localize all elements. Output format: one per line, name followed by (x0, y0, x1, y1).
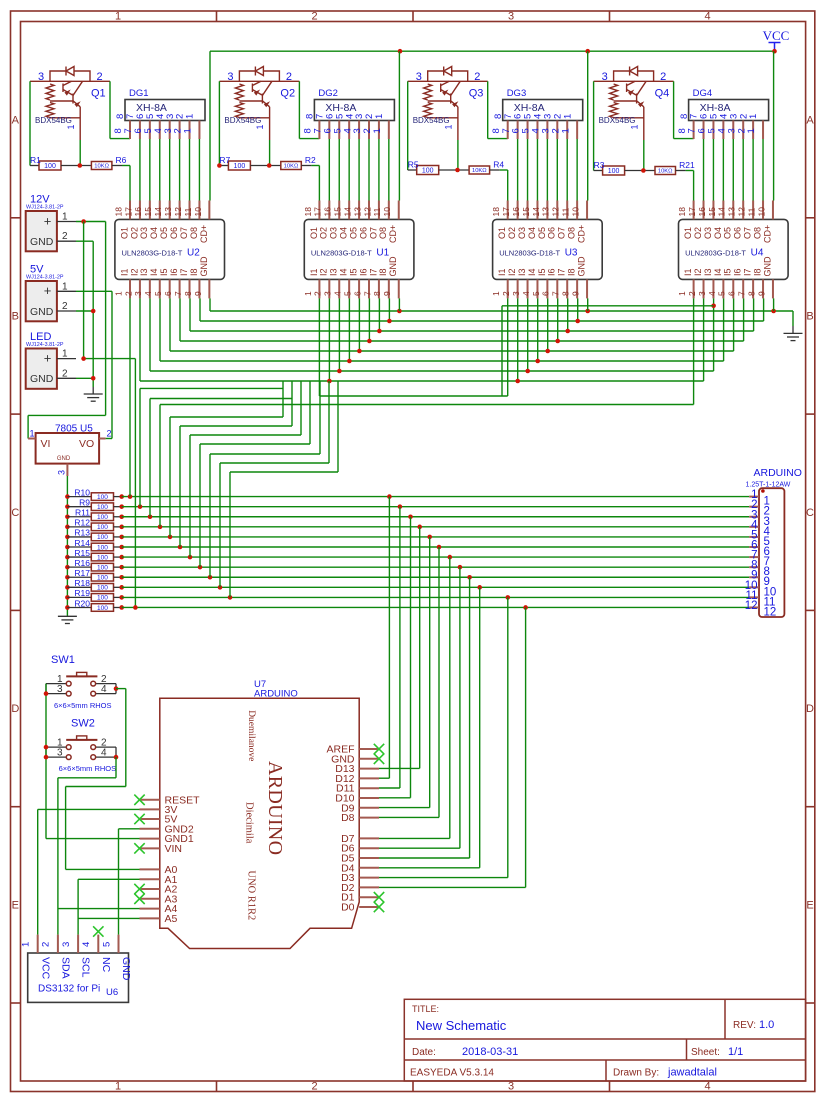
svg-text:3: 3 (511, 291, 521, 296)
U7 pin GND1 (140, 838, 160, 840)
wire net bus 361 (160, 360, 724, 362)
junction rail / R11 (65, 514, 70, 519)
wire net GND rail mid (210, 310, 793, 312)
svg-text:D: D (806, 703, 814, 715)
no-connect flag A2 (134, 884, 144, 894)
svg-text:100: 100 (97, 595, 108, 602)
svg-text:I7: I7 (368, 268, 378, 276)
junction row 1 / feed column (128, 494, 133, 499)
no-connect flag AREF (374, 744, 384, 754)
junction VCC rail / U1 CD+ (398, 49, 403, 54)
wire LED+ down to R20 row (134, 359, 136, 608)
junction U3 pin drop bus 341 (555, 339, 560, 344)
svg-text:11: 11 (372, 207, 382, 216)
svg-text:D0: D0 (341, 902, 355, 914)
svg-text:100: 100 (97, 524, 108, 531)
junction U1 pin drop bus 321 (387, 319, 392, 324)
U5 pin 1 VI (28, 438, 35, 440)
no-connect flag GND (374, 754, 384, 764)
U7 body (160, 698, 359, 948)
svg-text:O3: O3 (703, 227, 713, 239)
svg-text:O4: O4 (527, 227, 537, 239)
wire Q1 pin2 to DG pin8 (110, 138, 130, 140)
wire R21 down to ULN pin18 (693, 171, 695, 201)
svg-text:I6: I6 (547, 268, 557, 276)
svg-text:A: A (806, 115, 814, 127)
svg-text:I8: I8 (567, 268, 577, 276)
svg-text:SW1: SW1 (51, 654, 75, 666)
junction SW2 right (114, 755, 119, 760)
ARDUINO pin 7 (749, 556, 759, 558)
ground symbol right (784, 333, 803, 340)
svg-text:3: 3 (57, 470, 67, 475)
junction row 4 / feed column (158, 525, 163, 530)
U6 pin 5 GND (118, 935, 120, 953)
svg-text:R19: R19 (74, 588, 90, 598)
U4 pin 9 GND (772, 279, 774, 298)
svg-text:17: 17 (313, 207, 323, 217)
U7 pin AREF (359, 748, 379, 750)
svg-text:4: 4 (521, 291, 531, 296)
wire Q4 pin1 to junction (643, 140, 645, 171)
svg-text:jawadtalal: jawadtalal (667, 1067, 717, 1079)
svg-text:+: + (44, 350, 52, 365)
U1 pin 5 I5 (358, 279, 360, 298)
U3 pin 2 I2 (517, 279, 519, 298)
svg-text:18: 18 (303, 207, 313, 217)
svg-text:WJ124-3.81-2P: WJ124-3.81-2P (26, 275, 64, 281)
svg-text:I6: I6 (733, 268, 743, 276)
svg-text:R15: R15 (74, 548, 90, 558)
junction Q2 pin1 / resistor row (267, 163, 272, 168)
wire net 12V+ (76, 221, 106, 223)
U4 pin 15 O4 (722, 201, 724, 220)
svg-text:1: 1 (444, 124, 454, 129)
U2 pin 7 I7 (189, 279, 191, 298)
svg-text:7: 7 (362, 291, 372, 296)
U1 pin 7 I7 (378, 279, 380, 298)
ARDUINO pin 12 (749, 606, 759, 608)
transistor Q1 BDX54BG (30, 67, 110, 141)
svg-text:1: 1 (629, 124, 639, 129)
junction LED+ / 12V+ column (81, 356, 86, 361)
svg-text:R11: R11 (75, 508, 90, 518)
svg-text:1: 1 (62, 212, 68, 223)
svg-text:13: 13 (352, 207, 362, 217)
svg-text:R3: R3 (594, 160, 605, 170)
wire to GND1 (46, 838, 140, 840)
DG2 pin 5 (348, 121, 350, 140)
junction row 3 drop (408, 514, 413, 519)
ARDUINO pin 4 (749, 526, 759, 528)
U3 pin 16 O3 (527, 201, 529, 220)
wire DG1.2 to ULN (189, 139, 191, 201)
wire Q4 pin3 down to base resistor (593, 81, 595, 170)
svg-text:O1: O1 (683, 227, 693, 239)
ARDUINO pin 10 (749, 586, 759, 588)
junction U4 GND (771, 309, 776, 314)
wire LED pin2 (57, 377, 76, 379)
svg-text:1.0: 1.0 (759, 1019, 774, 1031)
svg-text:I5: I5 (348, 268, 358, 276)
junction rail / R18 (65, 585, 70, 590)
svg-text:R2: R2 (305, 155, 316, 165)
U7 pin D1 (359, 896, 379, 898)
wire net GND connectors (76, 240, 93, 242)
U4 pin 14 O5 (732, 201, 734, 220)
svg-text:8: 8 (372, 291, 382, 296)
svg-text:ARDUINO: ARDUINO (264, 761, 286, 855)
U3 pin 4 I4 (536, 279, 538, 298)
wire DG1.7 to ULN (139, 139, 141, 201)
svg-text:Date:: Date: (412, 1047, 436, 1058)
wire net bus 381 (140, 380, 704, 382)
junction rail / R10 (65, 494, 70, 499)
svg-text:5: 5 (101, 942, 112, 947)
U2 pin 4 I4 (159, 279, 161, 298)
junction U3 pin drop bus 371 (525, 369, 530, 374)
wire to A4 (58, 908, 140, 910)
U3 pin 17 O2 (517, 201, 519, 220)
svg-text:EASYEDA V5.3.14: EASYEDA V5.3.14 (410, 1068, 494, 1079)
U7 pin D2 (359, 886, 379, 888)
svg-text:BDX54BG: BDX54BG (599, 116, 636, 125)
wire to 3V (38, 808, 140, 810)
U2 pin 6 I6 (179, 279, 181, 298)
U4 pin 8 I8 (762, 279, 764, 298)
svg-text:14: 14 (153, 207, 163, 217)
svg-text:I8: I8 (378, 268, 388, 276)
wire net bus 331 (190, 330, 754, 332)
svg-text:3: 3 (508, 11, 514, 23)
wire to A5 (78, 917, 139, 919)
svg-text:2: 2 (62, 231, 68, 242)
junction SW2 pin3 (44, 755, 49, 760)
transistor Q4 BDX54BG (594, 67, 674, 141)
wire DG2.5 to ULN (348, 139, 350, 201)
svg-text:17: 17 (687, 207, 697, 217)
wire DG4.4 to ULN (732, 139, 734, 201)
svg-text:O5: O5 (723, 227, 733, 239)
wire net row 3 (122, 516, 750, 518)
U1 pin 2 I2 (328, 279, 330, 298)
svg-text:GND: GND (57, 456, 71, 462)
svg-text:ULN2803G-D18-T: ULN2803G-D18-T (311, 249, 372, 258)
U4 pin 11 O8 (762, 201, 764, 220)
U3 pin 15 O4 (536, 201, 538, 220)
junction U1 pin drop bus 351 (357, 349, 362, 354)
junction U1 GND (397, 309, 402, 314)
svg-text:GND: GND (762, 256, 772, 277)
wire net SCL / A1 / A5 (77, 879, 79, 934)
svg-text:1: 1 (677, 291, 687, 296)
U3 pin 6 I6 (556, 279, 558, 298)
ARDUINO pin 11 (749, 596, 759, 598)
U1 pin 17 O2 (328, 201, 330, 220)
transistor Q2 BDX54BG (219, 67, 299, 141)
junction U4 I3 (711, 304, 716, 309)
svg-text:100: 100 (608, 168, 620, 175)
wire LED pin1 (57, 358, 76, 360)
DG4 pin 1 (762, 121, 764, 140)
svg-text:8: 8 (746, 291, 756, 296)
svg-text:R18: R18 (74, 578, 90, 588)
svg-text:I2: I2 (693, 268, 703, 276)
svg-text:100: 100 (44, 163, 56, 170)
svg-text:6: 6 (541, 291, 551, 296)
wire 12V+ down (105, 222, 107, 416)
DG1 pin 1 (198, 121, 200, 140)
DG4 pin 2 (752, 121, 754, 140)
svg-text:1: 1 (748, 114, 759, 119)
svg-text:VO: VO (79, 438, 94, 450)
svg-text:R21: R21 (679, 160, 695, 170)
svg-text:DG3: DG3 (507, 88, 527, 99)
svg-text:O3: O3 (517, 227, 527, 239)
svg-text:I2: I2 (507, 268, 517, 276)
svg-text:13: 13 (163, 207, 173, 217)
svg-text:DG4: DG4 (693, 88, 713, 99)
junction row 10 / feed column (218, 585, 223, 590)
U7 pin A2 (140, 888, 160, 890)
wire Q3 pin2 down (487, 81, 489, 138)
U7 pin A1 (140, 878, 160, 880)
svg-text:R20: R20 (74, 598, 90, 608)
svg-text:R1: R1 (30, 155, 41, 165)
svg-text:12: 12 (173, 207, 183, 217)
svg-text:XH-8A: XH-8A (325, 102, 356, 114)
wire DG2.6 to ULN (338, 139, 340, 201)
DG4 pin 3 (742, 121, 744, 140)
svg-text:12: 12 (362, 207, 372, 217)
junction Q4 pin1 / resistor row (641, 168, 646, 173)
svg-text:O4: O4 (339, 227, 349, 239)
junction rail / R19 (65, 595, 70, 600)
wire net row 10 (122, 586, 750, 588)
junction R10 output (119, 494, 124, 499)
U7 pin RESET (140, 799, 160, 801)
svg-text:I8: I8 (189, 268, 199, 276)
junction GND / 5V pin2 (91, 309, 96, 314)
wire DG3.7 to ULN (517, 139, 519, 201)
svg-text:Q2: Q2 (280, 88, 295, 100)
wire feed row 4 (159, 405, 161, 527)
svg-text:R14: R14 (74, 538, 90, 548)
svg-text:ULN2803G-D18-T: ULN2803G-D18-T (122, 249, 183, 258)
wire U4 GND drop (773, 298, 775, 311)
svg-text:17: 17 (123, 207, 133, 217)
wire DG4.2 to ULN (752, 139, 754, 201)
ground stem (92, 387, 94, 394)
wire R5 to R4 (439, 169, 469, 171)
junction R20 output (119, 605, 124, 610)
svg-text:B: B (806, 311, 813, 323)
wire U2 GND drop (209, 298, 211, 311)
svg-text:ARDUINO: ARDUINO (754, 467, 802, 479)
svg-text:R17: R17 (74, 568, 90, 578)
wire Q2 pin2 to DG pin8 (299, 138, 319, 140)
U7 pin D3 (359, 877, 379, 879)
svg-text:I5: I5 (159, 268, 169, 276)
svg-text:I1: I1 (497, 268, 507, 276)
no-connect flag VIN (134, 843, 144, 853)
svg-text:1/1: 1/1 (728, 1046, 743, 1058)
svg-text:1: 1 (491, 291, 501, 296)
svg-text:2: 2 (474, 71, 480, 83)
wire net U6 VCC / 3V (37, 809, 39, 934)
junction row 12 drop (523, 605, 528, 610)
svg-text:XH-8A: XH-8A (136, 102, 167, 114)
svg-text:100: 100 (97, 575, 108, 582)
IC U2 ULN2803G-D18-T (115, 219, 225, 279)
svg-text:E: E (12, 899, 19, 911)
ARDUINO pin 1 (749, 496, 759, 498)
svg-text:2: 2 (687, 291, 697, 296)
svg-text:I3: I3 (139, 268, 149, 276)
wire U4 I2 drop (703, 298, 705, 381)
DG3 pin 3 (556, 121, 558, 140)
svg-text:100: 100 (97, 534, 108, 541)
junction VCC rail / VCC flag (772, 49, 777, 54)
svg-text:1: 1 (62, 281, 68, 292)
U7 pin D7 (359, 837, 379, 839)
U1 pin 10 CD+ (398, 201, 400, 220)
junction U1 pin drop bus 361 (347, 359, 352, 364)
wire R3 to R21 (625, 170, 655, 172)
U4 pin 18 O1 (693, 201, 695, 220)
wire DG3.5 to ULN (536, 139, 538, 201)
svg-text:O2: O2 (693, 227, 703, 239)
DG2 pin 2 (378, 121, 380, 140)
svg-text:100: 100 (97, 564, 108, 571)
svg-text:9: 9 (570, 291, 580, 296)
svg-text:GND: GND (30, 306, 54, 318)
DG2 pin 8 (318, 121, 320, 140)
wire net U5 GND rail (66, 476, 68, 616)
svg-text:A5: A5 (165, 913, 178, 925)
wire net U6 GND / GND2 (118, 829, 120, 935)
U1 pin 18 O1 (318, 201, 320, 220)
junction U3 pin drop bus 351 (545, 349, 550, 354)
svg-text:XH-8A: XH-8A (514, 102, 545, 114)
U1 pin 4 I4 (348, 279, 350, 298)
svg-text:VI: VI (41, 438, 51, 450)
svg-text:+: + (44, 213, 52, 228)
svg-text:O7: O7 (368, 227, 378, 239)
svg-text:3: 3 (38, 71, 44, 83)
svg-text:12: 12 (764, 606, 777, 618)
svg-text:R16: R16 (74, 558, 90, 568)
svg-text:9: 9 (382, 291, 392, 296)
svg-text:O3: O3 (139, 227, 149, 239)
wire into U5 VI (27, 415, 29, 438)
ARDUINO pin 8 (749, 566, 759, 568)
svg-text:17: 17 (501, 207, 511, 217)
wire net 5V+ (76, 290, 112, 292)
no-connect flag D1 (374, 892, 384, 902)
svg-text:Drawn By:: Drawn By: (613, 1068, 659, 1079)
U1 pin 13 O6 (368, 201, 370, 220)
svg-text:1: 1 (115, 1081, 121, 1093)
resistor R5 100 (408, 169, 417, 171)
ARDUINO pin 3 (749, 516, 759, 518)
wire R7 to R2 (250, 165, 280, 167)
svg-text:O4: O4 (713, 227, 723, 239)
ground symbol connectors (84, 394, 103, 401)
U1 pin 8 I8 (388, 279, 390, 298)
U2 pin 14 O5 (169, 201, 171, 220)
junction U1 pin drop bus 381 (327, 379, 332, 384)
U7 pin D11 (359, 787, 379, 789)
svg-text:O5: O5 (348, 227, 358, 239)
junction row 5 drop (427, 535, 432, 540)
wire net row 5 (122, 536, 750, 538)
U3 pin 1 I1 (507, 279, 509, 298)
U4 pin 2 I2 (703, 279, 705, 298)
svg-text:R5: R5 (408, 160, 419, 170)
DG2 pin 6 (338, 121, 340, 140)
wire R6 to ULN pin18 (122, 165, 130, 167)
svg-text:1: 1 (113, 291, 123, 296)
U7 pin 3V (140, 808, 160, 810)
wire net bus 371 (150, 370, 714, 372)
junction row 11 drop (506, 595, 511, 600)
wire DG4.3 to ULN (742, 139, 744, 201)
junction U3 GND (585, 309, 590, 314)
svg-text:10: 10 (756, 207, 766, 217)
svg-text:2: 2 (97, 71, 103, 83)
U2 pin 2 I2 (139, 279, 141, 298)
svg-text:1: 1 (30, 429, 35, 439)
wire link Z 1 (282, 381, 284, 417)
svg-text:C: C (806, 507, 814, 519)
svg-text:BDX54BG: BDX54BG (224, 116, 261, 125)
wire DG1.3 to ULN (179, 139, 181, 201)
svg-text:U6: U6 (106, 987, 118, 998)
svg-text:1: 1 (183, 128, 194, 133)
svg-text:I3: I3 (517, 268, 527, 276)
U4 pin 10 CD+ (772, 201, 774, 220)
wire DG4.5 to ULN (722, 139, 724, 201)
svg-text:SDA: SDA (60, 957, 72, 979)
svg-text:15: 15 (333, 207, 343, 217)
wire to A0 (66, 868, 140, 870)
U7 pin D10 (359, 797, 379, 799)
svg-text:GND: GND (30, 236, 54, 248)
wire link row 2 top (140, 387, 283, 389)
resistor R3 100 (594, 170, 603, 172)
wire DG3.1 to ULN (576, 139, 578, 201)
svg-text:10KΩ: 10KΩ (94, 164, 109, 170)
svg-text:D: D (11, 703, 19, 715)
wire U4 CD+ to VCC rail (773, 51, 775, 200)
U2 pin 12 O7 (189, 201, 191, 220)
svg-text:4: 4 (101, 684, 107, 695)
U7 pin D0 (359, 906, 379, 908)
svg-text:O2: O2 (319, 227, 329, 239)
svg-text:TITLE:: TITLE: (412, 1004, 439, 1014)
svg-text:I7: I7 (743, 268, 753, 276)
svg-text:I4: I4 (149, 268, 159, 276)
svg-text:A: A (12, 115, 20, 127)
no-connect flag U6 NC (93, 926, 103, 936)
svg-text:O1: O1 (309, 227, 319, 239)
U7 pin D9 (359, 807, 379, 809)
svg-text:1: 1 (746, 128, 757, 133)
svg-text:NC: NC (100, 957, 112, 973)
U2 pin 15 O4 (159, 201, 161, 220)
wire DG2.1 to ULN (388, 139, 390, 201)
